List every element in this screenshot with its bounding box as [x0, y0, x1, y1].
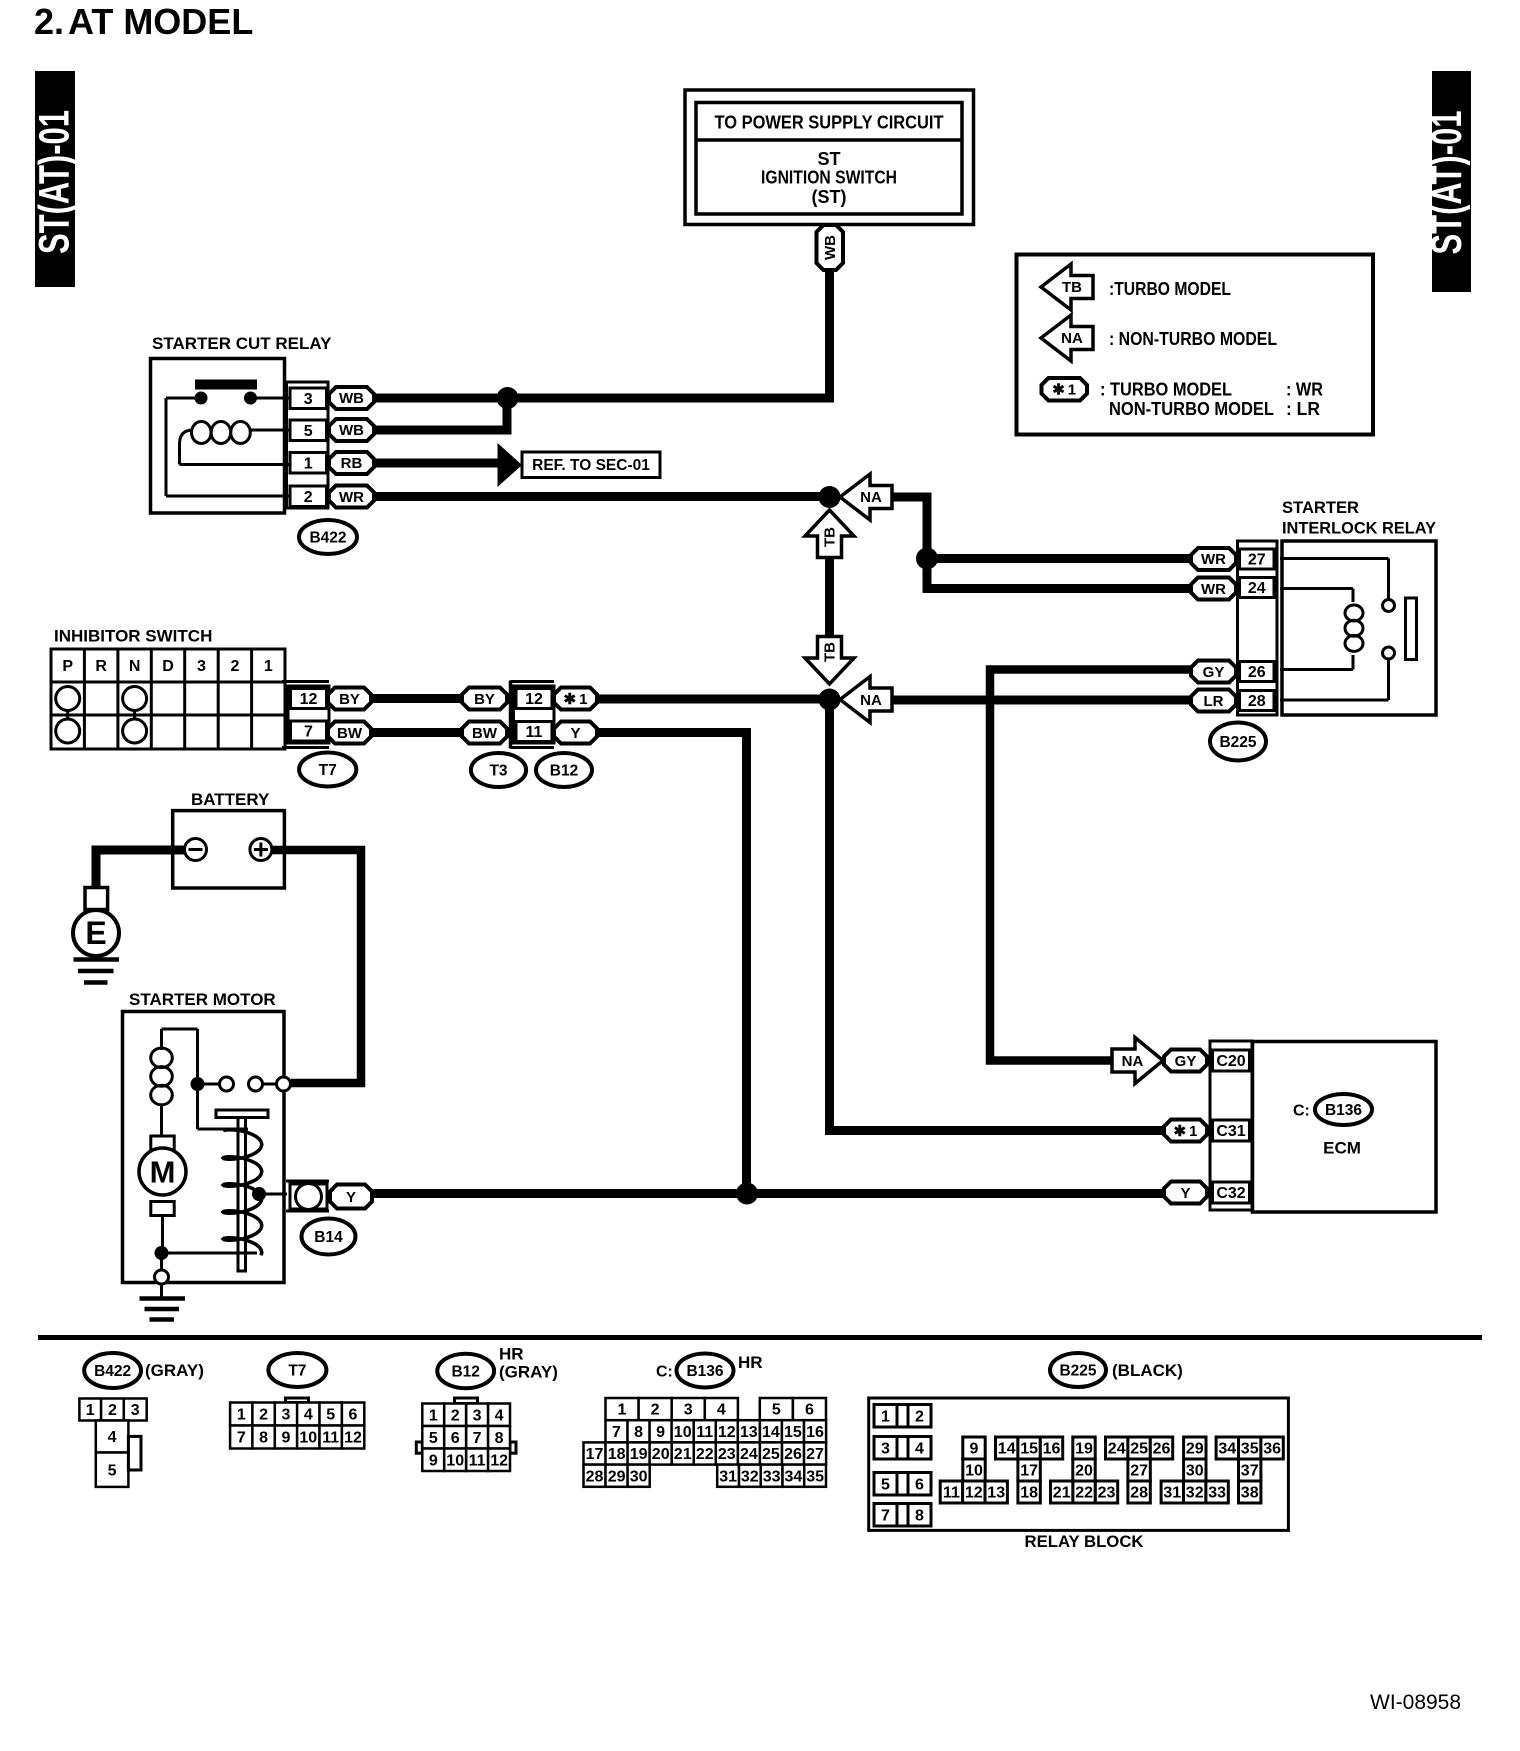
motor bottom junction	[155, 1246, 169, 1260]
svg-text:5: 5	[326, 1407, 335, 1424]
svg-text:B136: B136	[686, 1363, 723, 1380]
svg-text:B12: B12	[451, 1363, 479, 1380]
svg-text:5: 5	[881, 1476, 890, 1493]
svg-text:BATTERY: BATTERY	[191, 790, 270, 809]
svg-text:✱ 1: ✱ 1	[1052, 382, 1076, 399]
svg-text:2: 2	[259, 1407, 268, 1424]
tag WB pin5	[329, 419, 374, 441]
svg-text:32: 32	[1186, 1485, 1204, 1502]
tag Y ECM	[1164, 1182, 1207, 1204]
svg-text:4: 4	[495, 1407, 504, 1424]
svg-text:Y: Y	[346, 1189, 356, 1206]
label C: B136 bottom	[656, 1354, 734, 1388]
connector oval B12	[536, 753, 592, 787]
pin C20	[1213, 1050, 1250, 1071]
legend *1 text line2	[1109, 399, 1320, 419]
pin 5	[290, 420, 327, 441]
svg-text:BW: BW	[472, 725, 498, 742]
starter motor top wiring	[162, 1029, 249, 1129]
svg-text:5: 5	[772, 1402, 781, 1419]
svg-text:5: 5	[304, 423, 313, 440]
svg-text:1: 1	[86, 1402, 95, 1419]
svg-text:BY: BY	[339, 691, 360, 708]
junction WR27/24	[916, 548, 938, 570]
svg-text:7: 7	[612, 1424, 621, 1441]
motor bottom wire	[161, 1216, 164, 1254]
svg-text:INHIBITOR SWITCH: INHIBITOR SWITCH	[54, 627, 212, 646]
svg-text:33: 33	[763, 1468, 781, 1485]
svg-text:2.: 2.	[34, 1, 64, 42]
inhibitor switch grid	[51, 649, 285, 749]
svg-text:2: 2	[651, 1402, 660, 1419]
interlock contact bottom	[1383, 647, 1395, 659]
label INHIBITOR SWITCH	[54, 627, 212, 646]
svg-text:31: 31	[719, 1468, 737, 1485]
svg-text:37: 37	[1241, 1463, 1259, 1480]
svg-text:35: 35	[1241, 1441, 1259, 1458]
svg-text:T3: T3	[489, 762, 507, 779]
svg-text:6: 6	[915, 1476, 924, 1493]
connector oval T3	[471, 753, 526, 787]
svg-text:9: 9	[970, 1441, 979, 1458]
ignition switch box	[685, 90, 974, 225]
label BATTERY	[191, 790, 270, 809]
svg-text:7: 7	[881, 1507, 890, 1524]
starter cut relay coil	[180, 422, 291, 465]
svg-text:(BLACK): (BLACK)	[1112, 1361, 1183, 1380]
label STARTER CUT RELAY	[152, 334, 332, 353]
wire to WR27	[927, 554, 1191, 563]
svg-text:18: 18	[1020, 1485, 1038, 1502]
svg-text:ST: ST	[817, 149, 840, 169]
svg-text:B225: B225	[1059, 1362, 1096, 1379]
wire battery plus to starter	[272, 850, 361, 1083]
interlock wiring 28	[1280, 660, 1389, 701]
svg-text:NA: NA	[860, 692, 882, 709]
T7 pin grid	[230, 1403, 364, 1449]
tag GY 26	[1191, 661, 1236, 683]
svg-text:WR: WR	[1201, 551, 1226, 568]
svg-text:15: 15	[784, 1424, 802, 1441]
wire junction2 down to ECM	[830, 700, 1165, 1131]
svg-text:23: 23	[1098, 1485, 1116, 1502]
svg-text:T7: T7	[319, 762, 337, 779]
mid connector column	[511, 681, 555, 749]
T7 tab	[286, 1398, 309, 1403]
left sidebar ST(AT)-01	[30, 71, 78, 287]
svg-text:4: 4	[108, 1429, 117, 1446]
tag BY mid	[462, 688, 507, 710]
pin C31	[1213, 1120, 1250, 1141]
svg-text:WR: WR	[339, 489, 364, 506]
svg-text:27: 27	[806, 1446, 824, 1463]
svg-text:19: 19	[1075, 1441, 1093, 1458]
pin 3	[290, 388, 327, 409]
svg-text:38: 38	[1241, 1485, 1259, 1502]
tag WR 24	[1191, 578, 1236, 600]
pin C32	[1213, 1182, 1250, 1203]
tag GY ECM	[1164, 1050, 1207, 1072]
tag Y mid	[554, 722, 597, 744]
label (GRAY) B12	[499, 1363, 558, 1382]
svg-text:12: 12	[300, 691, 318, 708]
svg-text:12: 12	[344, 1430, 362, 1447]
starter cut relay pin column	[287, 382, 329, 508]
svg-text:4: 4	[304, 1407, 313, 1424]
starter motor field coil	[151, 1029, 173, 1137]
svg-text:BW: BW	[337, 725, 363, 742]
wire to case ground	[155, 1253, 169, 1284]
svg-text:8: 8	[259, 1430, 268, 1447]
title 2. AT MODEL	[34, 1, 253, 42]
solenoid switch contacts	[191, 1077, 291, 1091]
svg-text:9: 9	[429, 1452, 438, 1469]
svg-text:C32: C32	[1216, 1185, 1245, 1202]
B422 pin 4	[96, 1421, 129, 1453]
svg-text:2: 2	[451, 1407, 460, 1424]
svg-text:NA: NA	[860, 489, 882, 506]
svg-text:23: 23	[718, 1446, 736, 1463]
wire battery minus to ground	[96, 850, 185, 889]
svg-text:IGNITION SWITCH: IGNITION SWITCH	[761, 167, 897, 187]
svg-text:B12: B12	[550, 762, 578, 779]
battery box	[173, 811, 285, 888]
legend TB arrow	[1041, 264, 1093, 310]
svg-text:8: 8	[634, 1424, 643, 1441]
svg-text:12: 12	[490, 1452, 508, 1469]
pin 27	[1240, 549, 1275, 569]
svg-text:17: 17	[586, 1446, 604, 1463]
svg-text:33: 33	[1208, 1485, 1226, 1502]
tag WB pin3	[329, 387, 374, 409]
svg-text:36: 36	[1263, 1441, 1281, 1458]
wire *1 to junction2	[597, 695, 830, 704]
svg-text:32: 32	[741, 1468, 759, 1485]
svg-text:12: 12	[525, 691, 543, 708]
svg-text:7: 7	[473, 1430, 482, 1447]
svg-text:C:: C:	[1293, 1103, 1310, 1120]
pin 24	[1240, 578, 1275, 598]
plunger Y junction	[252, 1187, 287, 1201]
ECM box	[1253, 1042, 1437, 1213]
tag WR pin2	[329, 486, 374, 508]
svg-text:M: M	[150, 1154, 176, 1189]
inhibitor pin column	[282, 682, 329, 748]
svg-text:TB: TB	[1062, 279, 1082, 296]
B422 pin 3	[124, 1399, 147, 1421]
svg-text:4: 4	[717, 1402, 726, 1419]
svg-text:16: 16	[1043, 1441, 1061, 1458]
pin 1	[290, 453, 327, 474]
svg-text:26: 26	[784, 1446, 802, 1463]
interlock pin column	[1238, 541, 1278, 715]
svg-text:26: 26	[1248, 664, 1266, 681]
battery plus terminal	[250, 839, 272, 861]
connector B14 drawing	[286, 1181, 329, 1211]
junction node 1	[819, 486, 841, 508]
svg-text:B225: B225	[1219, 734, 1256, 751]
svg-text:C20: C20	[1216, 1053, 1245, 1070]
wire WB pin5 branch	[374, 398, 507, 430]
svg-text:TO POWER SUPPLY CIRCUIT: TO POWER SUPPLY CIRCUIT	[715, 112, 944, 132]
wire Y mid down	[597, 733, 747, 1194]
pin 2	[290, 486, 327, 507]
motor brush bottom	[151, 1202, 174, 1216]
tag RB pin1	[329, 452, 374, 474]
legend NA arrow	[1041, 315, 1093, 361]
svg-text:HR: HR	[738, 1353, 763, 1372]
svg-text:6: 6	[349, 1407, 358, 1424]
wire to plunger bottom	[162, 1252, 258, 1255]
svg-text:Y: Y	[570, 725, 580, 742]
svg-text:10: 10	[299, 1430, 317, 1447]
junction Y wires	[736, 1183, 758, 1205]
tag *1 ECM	[1164, 1120, 1207, 1142]
svg-text:9: 9	[656, 1424, 665, 1441]
svg-text:HR: HR	[499, 1345, 524, 1364]
svg-text:RB: RB	[341, 455, 363, 472]
svg-text:3: 3	[131, 1402, 140, 1419]
svg-text:29: 29	[608, 1468, 626, 1485]
connector oval B422	[299, 520, 357, 554]
svg-text:12: 12	[965, 1485, 983, 1502]
svg-text:RELAY BLOCK: RELAY BLOCK	[1025, 1532, 1145, 1551]
svg-text:2: 2	[230, 658, 239, 675]
svg-text:1: 1	[429, 1407, 438, 1424]
B12 tab left	[416, 1442, 422, 1453]
svg-text:3: 3	[881, 1440, 890, 1457]
svg-text:: NON-TURBO MODEL: : NON-TURBO MODEL	[1109, 329, 1277, 349]
svg-text:: WR: : WR	[1286, 379, 1323, 399]
arrow TB up below junction1	[805, 510, 854, 558]
label (BLACK)	[1112, 1361, 1183, 1380]
svg-text:(GRAY): (GRAY)	[145, 1361, 204, 1380]
tag Y starter	[330, 1185, 372, 1209]
solenoid spring	[223, 1130, 262, 1256]
svg-text:24: 24	[740, 1446, 758, 1463]
label HR B136	[738, 1353, 763, 1372]
svg-text:STARTER: STARTER	[1282, 498, 1359, 517]
svg-text:20: 20	[652, 1446, 670, 1463]
svg-text:ST(AT)-01: ST(AT)-01	[30, 110, 78, 254]
svg-text:WR: WR	[1201, 581, 1226, 598]
interlock wiring 24	[1280, 589, 1353, 603]
svg-text:B14: B14	[314, 1229, 343, 1246]
oval T7 bottom	[268, 1353, 326, 1387]
tag *1 mid	[554, 688, 597, 710]
svg-text:✱ 1: ✱ 1	[564, 691, 588, 708]
svg-text:9: 9	[282, 1430, 291, 1447]
ref arrowhead	[498, 443, 523, 487]
svg-text:(GRAY): (GRAY)	[499, 1363, 558, 1382]
svg-text:28: 28	[1248, 693, 1266, 710]
svg-text:P: P	[62, 658, 73, 675]
inhibitor switch contact circles	[56, 687, 147, 744]
pin 28	[1240, 691, 1275, 711]
inhibitor switch letters	[62, 658, 272, 675]
svg-text:21: 21	[1053, 1485, 1071, 1502]
svg-text:28: 28	[1130, 1485, 1148, 1502]
svg-text:26: 26	[1153, 1441, 1171, 1458]
legend text turbo model	[1109, 279, 1231, 299]
svg-text:WB: WB	[822, 235, 839, 260]
svg-text:3: 3	[197, 658, 206, 675]
svg-text:24: 24	[1248, 580, 1266, 597]
wire BY	[371, 694, 462, 703]
connector oval B14	[302, 1219, 356, 1255]
svg-text:✱ 1: ✱ 1	[1174, 1123, 1198, 1140]
arrow TB down above junction2	[805, 637, 854, 685]
ref box REF. TO SEC-01	[522, 452, 660, 478]
interlock relay box	[1282, 541, 1436, 715]
svg-text:R: R	[95, 658, 107, 675]
svg-text:17: 17	[1020, 1463, 1038, 1480]
legend text non-turbo model	[1109, 329, 1277, 349]
svg-text:28: 28	[586, 1468, 604, 1485]
svg-text:31: 31	[1163, 1485, 1181, 1502]
svg-text:E: E	[85, 915, 106, 951]
svg-text:WB: WB	[339, 422, 364, 439]
wire RB to ref	[374, 459, 500, 468]
svg-text:B136: B136	[1325, 1102, 1362, 1119]
svg-text:REF. TO SEC-01: REF. TO SEC-01	[532, 457, 650, 474]
interlock wiring 26	[1280, 668, 1353, 671]
junction WB wires	[497, 387, 519, 409]
svg-text:B422: B422	[94, 1363, 131, 1380]
tag BW mid	[462, 722, 507, 744]
svg-text:12: 12	[718, 1424, 736, 1441]
svg-text:7: 7	[304, 724, 313, 741]
svg-text:1: 1	[304, 455, 313, 472]
svg-text:22: 22	[696, 1446, 714, 1463]
svg-text:(ST): (ST)	[812, 187, 847, 207]
svg-text:1: 1	[618, 1402, 627, 1419]
starter motor ground	[140, 1284, 186, 1320]
svg-text:6: 6	[451, 1430, 460, 1447]
svg-text:24: 24	[1108, 1441, 1126, 1458]
svg-text:D: D	[162, 658, 174, 675]
interlock contact bar	[1406, 598, 1417, 660]
svg-text:7: 7	[237, 1430, 246, 1447]
svg-text:AT MODEL: AT MODEL	[68, 1, 253, 42]
svg-text:4: 4	[915, 1440, 924, 1457]
separator line	[38, 1335, 1482, 1340]
B12 pin grid	[422, 1404, 510, 1472]
svg-text:C:: C:	[656, 1364, 673, 1381]
legend box	[1017, 255, 1374, 435]
svg-text:2: 2	[915, 1408, 924, 1425]
svg-text:25: 25	[1130, 1441, 1148, 1458]
svg-text:11: 11	[696, 1424, 713, 1441]
label (GRAY) B422	[145, 1361, 204, 1380]
relay block groups	[940, 1437, 1283, 1503]
svg-text:5: 5	[429, 1430, 438, 1447]
interlock coil	[1345, 605, 1363, 670]
wire BW	[371, 728, 462, 737]
svg-text:2: 2	[304, 489, 313, 506]
svg-text:5: 5	[108, 1462, 117, 1479]
label HR B12	[499, 1345, 524, 1364]
svg-text:1: 1	[237, 1407, 246, 1424]
svg-text:: TURBO MODEL: : TURBO MODEL	[1100, 379, 1232, 399]
legend *1 text line1	[1100, 379, 1323, 399]
svg-text:INTERLOCK RELAY: INTERLOCK RELAY	[1282, 519, 1437, 538]
interlock contact top	[1383, 600, 1395, 612]
drawing number WI-08958	[1370, 1691, 1461, 1714]
svg-text:C31: C31	[1216, 1123, 1245, 1140]
svg-text:22: 22	[1075, 1485, 1093, 1502]
right sidebar ST(AT)-01	[1422, 71, 1471, 292]
svg-text:T7: T7	[288, 1362, 306, 1379]
svg-text:3: 3	[473, 1407, 482, 1424]
svg-text:11: 11	[943, 1485, 960, 1502]
svg-text:1: 1	[881, 1408, 890, 1425]
arrow NA at junction2	[840, 677, 892, 723]
svg-text:2: 2	[108, 1402, 117, 1419]
svg-text:WB: WB	[339, 390, 364, 407]
svg-text:STARTER CUT RELAY: STARTER CUT RELAY	[152, 334, 332, 353]
svg-text:BY: BY	[474, 691, 495, 708]
wire TB1 to TB2	[825, 556, 834, 638]
motor brush top	[151, 1136, 174, 1154]
starter cut relay box	[151, 359, 285, 514]
svg-text:35: 35	[806, 1468, 824, 1485]
wire WR to junction1	[374, 492, 830, 501]
svg-text:3: 3	[282, 1407, 291, 1424]
svg-text:25: 25	[762, 1446, 780, 1463]
svg-text:11: 11	[469, 1452, 486, 1469]
pin 11 mid	[516, 722, 552, 742]
wire GY relay to ECM	[990, 670, 1191, 1061]
svg-text:GY: GY	[1175, 1053, 1197, 1070]
label ECM	[1323, 1139, 1361, 1158]
B422 pin 2	[101, 1399, 124, 1421]
ground bars	[74, 960, 120, 983]
tag BW inhibitor	[328, 722, 371, 744]
svg-text:10: 10	[446, 1452, 464, 1469]
connector oval T7	[299, 753, 356, 787]
svg-text:34: 34	[1218, 1441, 1236, 1458]
svg-text:15: 15	[1020, 1441, 1038, 1458]
pin 12 mid	[516, 689, 552, 709]
wire Y to ECM	[372, 1189, 1164, 1198]
svg-text:13: 13	[987, 1485, 1005, 1502]
pin 7 inhibitor	[291, 721, 327, 741]
tag LR 28	[1191, 690, 1236, 712]
svg-text:29: 29	[1186, 1441, 1204, 1458]
svg-text:STARTER MOTOR: STARTER MOTOR	[129, 990, 276, 1009]
tag WR 27	[1191, 548, 1236, 570]
arrow NA at junction1	[840, 474, 892, 520]
B422 tab	[128, 1436, 141, 1470]
svg-text:16: 16	[806, 1424, 824, 1441]
svg-text:TB: TB	[822, 642, 839, 662]
starter cut relay contact bar	[195, 380, 257, 390]
svg-text:1: 1	[264, 658, 273, 675]
B422 pin 1	[79, 1399, 101, 1421]
B136 pin grid	[584, 1398, 827, 1487]
pin 26	[1240, 662, 1275, 682]
starter cut relay contact dots	[195, 392, 258, 405]
arrow NA at ECM GY	[1112, 1038, 1163, 1084]
tag BY inhibitor	[328, 688, 371, 710]
svg-text:34: 34	[785, 1468, 803, 1485]
svg-text:3: 3	[684, 1402, 693, 1419]
svg-text:NA: NA	[1061, 330, 1083, 347]
label STARTER MOTOR	[129, 990, 276, 1009]
svg-text:6: 6	[805, 1402, 814, 1419]
svg-text:B422: B422	[309, 529, 346, 546]
